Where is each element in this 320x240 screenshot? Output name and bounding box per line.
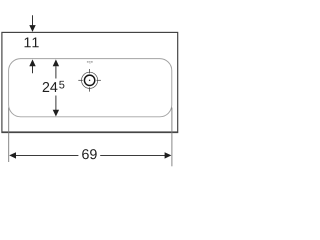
dim 24.5 text xyxy=(43,82,58,92)
tap hole tiny label xyxy=(87,61,93,64)
dimension 11 xyxy=(32,15,34,73)
dim 69 arrowhead right xyxy=(165,152,172,158)
washbasin outer rim rectangle xyxy=(2,32,178,132)
washbasin inner bowl outline xyxy=(9,59,172,117)
dim 11 arrowhead down xyxy=(29,25,35,32)
tap hole cross tick right xyxy=(97,79,101,81)
dim 24.5 arrowhead down xyxy=(53,110,59,117)
dimension 24.5 xyxy=(55,66,57,110)
dim 11 lower leader line xyxy=(32,66,34,74)
tap hole inner circle xyxy=(84,75,94,85)
dim 69 line right segment xyxy=(100,154,165,156)
dim 69 right extension line xyxy=(171,108,173,167)
dim 11 text xyxy=(25,37,39,47)
tap hole outer circle xyxy=(82,72,98,88)
dim 24.5 lower leader line xyxy=(55,96,57,111)
tap hole center dot xyxy=(89,80,90,81)
dim 24.5 arrowhead up xyxy=(53,59,59,66)
washbasin front edge (thicker bottom line) xyxy=(1,132,178,134)
dimension 69 xyxy=(9,108,172,167)
tap hole cross tick left xyxy=(78,79,82,81)
tap hole cross tick bottom xyxy=(89,87,91,91)
dim 24.5 superscript 5 xyxy=(59,81,64,89)
tap hole cross tick top xyxy=(89,69,91,73)
tap hole symbol xyxy=(78,69,101,92)
dim 11 upper leader line xyxy=(32,15,34,26)
dim 11 arrowhead up xyxy=(29,59,35,66)
dim 69 arrowhead left xyxy=(9,152,16,158)
dim 69 line left segment xyxy=(15,154,78,156)
dim 69 text xyxy=(82,149,97,159)
dim 69 left extension line xyxy=(8,108,10,163)
dim 24.5 upper leader line xyxy=(55,66,57,78)
